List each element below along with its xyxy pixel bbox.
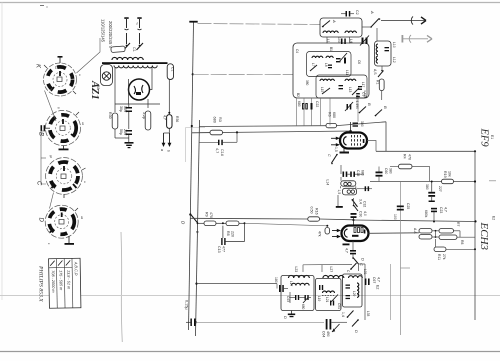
screen line y181 <box>370 180 476 182</box>
ground power <box>115 129 134 148</box>
padder capacitors C8 C9 <box>360 36 369 46</box>
svg-text:a: a <box>160 149 164 151</box>
caps C18 pair <box>341 165 365 177</box>
svg-text:680: 680 <box>361 170 365 176</box>
socket D <box>38 205 85 245</box>
svg-text:A.A: A.A <box>413 228 417 234</box>
svg-text:E2: E2 <box>492 216 496 220</box>
chassis corridor faint corner <box>186 128 206 163</box>
svg-text:C1: C1 <box>132 47 136 52</box>
field coil bar <box>163 115 180 129</box>
svg-text:ECH3: ECH3 <box>478 222 490 251</box>
grid line from bus to ECH3 <box>190 218 476 222</box>
capacitor C13 <box>217 223 245 252</box>
svg-text:B: B <box>38 132 44 136</box>
svg-text:C23: C23 <box>439 207 443 213</box>
osc box 3 <box>343 274 363 307</box>
svg-text:C4: C4 <box>295 49 299 53</box>
svg-text:~: ~ <box>133 22 139 25</box>
svg-text:R3: R3 <box>218 117 222 122</box>
svg-text:C64: C64 <box>322 331 326 337</box>
svg-text:C43: C43 <box>286 296 290 302</box>
transformer secondary winding <box>114 66 157 68</box>
svg-text:D: D <box>354 330 359 333</box>
svg-text:4,7: 4,7 <box>215 148 219 153</box>
svg-text:R1: R1 <box>376 80 380 84</box>
resistor R19 <box>442 171 454 184</box>
svg-text:B1: B1 <box>329 47 333 51</box>
resistor R6 on line L1 <box>326 112 337 128</box>
AVC line bottom <box>196 321 324 323</box>
svg-text:R16: R16 <box>315 208 319 215</box>
svg-text:A,B,C,D: A,B,C,D <box>74 261 78 276</box>
svg-text:680: 680 <box>332 112 336 118</box>
osc box 1 <box>281 276 314 311</box>
resistor R16 <box>308 207 320 222</box>
svg-text:L29: L29 <box>352 291 356 297</box>
pack top interconnect wire <box>303 264 352 272</box>
coil L31 top bumps <box>349 269 368 278</box>
svg-text:30µ: 30µ <box>119 106 123 112</box>
capacitor C100 <box>274 277 288 292</box>
capacitor C72 <box>119 104 132 129</box>
capacitor 0.15u on bus <box>185 300 197 326</box>
inner coil box L7 L8 <box>307 52 352 77</box>
svg-text:R8: R8 <box>460 240 464 244</box>
coil L27 top bumps <box>323 267 344 279</box>
svg-text:L27: L27 <box>329 267 333 273</box>
svg-text:C51: C51 <box>337 303 341 309</box>
transformer primary winding <box>112 57 143 60</box>
wire frame C stub <box>41 157 46 159</box>
coil box L15 <box>337 186 357 195</box>
svg-text:L12: L12 <box>392 57 396 63</box>
switch D below ECH3 <box>352 257 365 271</box>
svg-text:L17: L17 <box>361 82 365 88</box>
svg-text:L8: L8 <box>324 63 328 67</box>
wire socket B to C frame <box>41 131 46 184</box>
svg-text:470: 470 <box>408 154 412 160</box>
rectifier tube AZ1 circle <box>129 79 150 100</box>
resistor R8 <box>216 221 246 237</box>
bottom rule <box>0 351 500 353</box>
svg-text:AZ1: AZ1 <box>89 80 100 100</box>
stubs aerial box to RF box <box>327 37 350 44</box>
svg-text:L15: L15 <box>320 87 324 93</box>
svg-text:B2: B2 <box>296 93 300 97</box>
switch A S below coil box <box>373 66 384 77</box>
grid switch above ECH3 <box>353 198 358 211</box>
svg-text:180: 180 <box>274 277 278 283</box>
svg-text:L23: L23 <box>294 267 298 273</box>
fuse <box>111 46 136 52</box>
svg-text:C32: C32 <box>363 201 367 207</box>
capacitor C16 <box>200 132 238 156</box>
svg-text:4,7: 4,7 <box>377 277 381 282</box>
resistor network cluster <box>413 222 475 244</box>
svg-text:L17: L17 <box>289 281 293 287</box>
svg-text:C67: C67 <box>372 277 376 283</box>
capacitor C67 <box>365 277 381 285</box>
svg-text:A,S: A,S <box>373 69 377 75</box>
antenna feed line faint <box>198 24 321 25</box>
svg-text:D: D <box>38 218 44 223</box>
svg-text:680: 680 <box>301 304 305 310</box>
anode line y151 <box>376 150 476 152</box>
capacitor C60 <box>376 167 393 182</box>
svg-text:380: 380 <box>389 168 393 174</box>
svg-text:R8: R8 <box>226 231 230 236</box>
switch D right low <box>352 319 359 333</box>
svg-text:A: A <box>332 19 337 23</box>
choke <box>142 111 151 130</box>
svg-text:13,8 - 51 m: 13,8 - 51 m <box>66 270 70 289</box>
svg-text:1,5: 1,5 <box>334 147 338 152</box>
cap on wire right of L15 <box>357 186 372 191</box>
svg-text:C30: C30 <box>359 211 363 217</box>
wire socket K to B <box>45 91 57 122</box>
grid cap C20 <box>349 121 364 133</box>
label EF9 <box>479 128 497 181</box>
svg-text:708 - 2000 m: 708 - 2000 m <box>51 270 55 292</box>
svg-text:380: 380 <box>425 184 429 190</box>
svg-text:0,15µ: 0,15µ <box>185 300 189 310</box>
svg-text:C: C <box>327 154 331 157</box>
svg-text:100: 100 <box>393 214 397 220</box>
switch A2 aerial select <box>362 10 380 28</box>
extra coil pack labels <box>286 270 370 317</box>
RF coils big box <box>293 43 369 98</box>
oscillator trimmer arrow <box>339 53 347 62</box>
svg-text:680: 680 <box>297 101 301 107</box>
osc box 2 <box>316 279 342 311</box>
signal line H2 <box>192 131 352 133</box>
svg-text:L11: L11 <box>345 70 349 75</box>
svg-text:B: B <box>367 103 372 106</box>
scan crease vertical <box>121 232 122 342</box>
svg-text:4,0: 4,0 <box>363 211 367 216</box>
socket K <box>35 56 83 96</box>
resistor R9 <box>198 212 217 226</box>
svg-text:E1: E1 <box>490 135 494 139</box>
HT vertical rail x475 <box>474 151 476 320</box>
AVC rail right <box>390 264 392 320</box>
svg-text:E2: E2 <box>376 285 380 289</box>
heater wiring loop <box>115 67 170 114</box>
antenna bus vertical A <box>189 21 198 330</box>
svg-text:25V: 25V <box>123 129 127 136</box>
svg-text:g2: g2 <box>49 155 53 159</box>
mains cord wires <box>124 17 141 44</box>
svg-text:C25: C25 <box>406 203 410 209</box>
coil box L10 L12 <box>375 28 397 66</box>
svg-text:R4: R4 <box>403 154 407 159</box>
svg-text:R11: R11 <box>437 254 441 260</box>
svg-text:C16: C16 <box>220 149 224 156</box>
svg-text:50µ: 50µ <box>119 129 123 135</box>
svg-text:L33: L33 <box>366 311 370 317</box>
svg-text:R9: R9 <box>205 212 209 217</box>
trimmer C3 <box>345 95 359 111</box>
svg-text:50V: 50V <box>123 106 127 113</box>
svg-text:R30: R30 <box>108 112 112 119</box>
svg-text:EF9: EF9 <box>479 128 490 148</box>
switch 3,4 <box>352 199 367 207</box>
svg-text:227: 227 <box>438 186 442 192</box>
capacitor C2 <box>341 10 359 17</box>
vertical wire right of coil pack <box>364 264 366 320</box>
capacitor C31 below ECH3 <box>345 241 357 258</box>
svg-text:4,7: 4,7 <box>163 115 167 120</box>
wire socket K to power unit <box>77 38 101 73</box>
svg-text:D: D <box>283 316 288 319</box>
svg-text:110/125/145: 110/125/145 <box>101 19 106 43</box>
resistor R30 <box>108 112 118 129</box>
horizontal fold line mid <box>0 295 500 297</box>
svg-text:380: 380 <box>360 121 364 127</box>
svg-text:L1: L1 <box>326 39 330 43</box>
ECH3 input arrows <box>332 229 341 238</box>
svg-text:b: b <box>167 150 171 152</box>
svg-text:3,2µ: 3,2µ <box>142 112 146 119</box>
label AZ1 <box>89 80 100 100</box>
svg-text:D: D <box>361 258 366 261</box>
tube ECH3 envelope <box>342 226 369 242</box>
svg-text:L14: L14 <box>326 180 330 186</box>
aerial arrow 2 grey <box>402 35 433 43</box>
svg-text:200/220/245 V: 200/220/245 V <box>108 21 113 48</box>
svg-text:470: 470 <box>209 212 213 218</box>
resistor R1 <box>376 79 385 100</box>
svg-text:490: 490 <box>326 331 330 337</box>
resistor R4 <box>390 154 430 182</box>
svg-text:1,5: 1,5 <box>337 190 341 195</box>
svg-text:L19: L19 <box>317 296 321 302</box>
socket C <box>36 155 88 198</box>
top wire to C67 <box>359 263 366 265</box>
svg-text:C22: C22 <box>315 101 319 107</box>
svg-text:B8: B8 <box>96 85 100 89</box>
svg-text:L10: L10 <box>392 42 396 48</box>
svg-text:PHILIPS 853.X: PHILIPS 853.X <box>38 265 44 302</box>
svg-text:C1: C1 <box>171 67 175 71</box>
EF9 cathode switch 1,5 <box>327 147 338 164</box>
resistor R11 <box>434 239 476 260</box>
switch C top right of coil pack <box>350 263 364 270</box>
coil box L14 <box>326 177 356 186</box>
svg-text:680: 680 <box>213 117 217 123</box>
svg-text:R7: R7 <box>456 222 460 226</box>
capacitor C73 <box>119 129 132 142</box>
tube EF9 envelope <box>340 133 367 149</box>
svg-text:R6: R6 <box>328 112 332 117</box>
svg-text:C2: C2 <box>355 10 359 15</box>
ECH3 cathode bar <box>343 244 350 246</box>
svg-text:10k: 10k <box>448 171 452 177</box>
svg-text:47k: 47k <box>318 231 322 237</box>
aerial arrow 1 <box>381 17 426 25</box>
svg-text:4,7: 4,7 <box>345 248 349 253</box>
trimmer capacitor C71 <box>337 37 346 44</box>
svg-text:0,50: 0,50 <box>310 207 314 214</box>
svg-text:4,7: 4,7 <box>444 207 448 212</box>
capacitor C61 under screen line <box>425 181 442 203</box>
svg-text:L7: L7 <box>311 63 315 67</box>
signal line L1 <box>200 122 387 152</box>
svg-text:C: C <box>36 181 42 186</box>
inner coil box L15 L13 <box>316 75 367 98</box>
EF9 ground <box>340 149 350 154</box>
svg-text:380: 380 <box>305 80 309 86</box>
svg-text:3,4: 3,4 <box>359 199 363 204</box>
svg-text:100: 100 <box>337 37 341 43</box>
svg-text:477: 477 <box>222 246 226 252</box>
EF9 output wire to line <box>367 141 376 152</box>
paper speck top left <box>40 6 48 8</box>
aerial coil box L1 L4 <box>320 18 362 43</box>
svg-text:B: B <box>383 106 388 109</box>
EF9 input arrows <box>331 137 340 147</box>
switch D <box>181 214 200 235</box>
capacitor C23 <box>424 207 448 223</box>
output arrows a b <box>160 128 171 152</box>
svg-text:C6: C6 <box>357 60 361 64</box>
svg-text:C: C <box>359 263 364 266</box>
mains voltage label <box>101 19 114 48</box>
extra small labels RF block <box>295 47 365 97</box>
svg-text:680k: 680k <box>424 210 428 218</box>
padder switch bottom of box3 <box>341 311 354 318</box>
coil L23 top bumps <box>289 267 310 279</box>
svg-text:C60: C60 <box>384 168 388 174</box>
svg-text:Le: Le <box>54 66 58 70</box>
capacitor C64 <box>322 319 348 337</box>
svg-text:1,4: 1,4 <box>341 312 345 317</box>
svg-text:R19: R19 <box>443 171 447 178</box>
svg-text:a3: a3 <box>80 216 84 220</box>
pilot lamp <box>101 65 113 86</box>
svg-text:A: A <box>370 10 375 14</box>
svg-text:C13: C13 <box>217 246 221 253</box>
AVC feed vertical with cap C25 <box>393 182 410 335</box>
AVC row extension with resistor R5 <box>245 223 330 236</box>
earth feed line faint <box>193 73 293 75</box>
transformer core <box>102 62 168 64</box>
switch A in aerial box <box>322 19 337 27</box>
svg-text:220: 220 <box>231 231 235 237</box>
svg-text:a1: a1 <box>81 122 85 126</box>
mains switch contacts <box>124 43 144 50</box>
svg-text:175 - 585 m: 175 - 585 m <box>58 270 62 290</box>
resistor R3 <box>200 117 239 135</box>
capacitor C30 <box>351 211 368 226</box>
ground below box1 <box>283 311 295 320</box>
svg-text:L21: L21 <box>325 297 329 303</box>
feed line from bus <box>197 284 278 289</box>
resistor right of transformer <box>167 64 174 80</box>
coupling caps below box <box>297 98 331 126</box>
svg-text:R36: R36 <box>175 116 179 122</box>
svg-text:27k: 27k <box>442 254 446 260</box>
svg-text:L13: L13 <box>348 87 352 93</box>
socket B <box>38 107 86 150</box>
cap C9 <box>356 92 365 122</box>
svg-text:C18: C18 <box>356 170 360 176</box>
ECH3 anode wire right <box>369 232 420 235</box>
svg-text:C9: C9 <box>362 92 366 96</box>
bus vertical B <box>195 120 200 336</box>
wire socket C to D <box>50 193 54 209</box>
switch B pair right of box <box>359 103 388 116</box>
label ECH3 <box>478 216 496 251</box>
ground bar below L15 <box>336 195 343 208</box>
svg-text:C3 4-490: C3 4-490 <box>355 95 359 109</box>
